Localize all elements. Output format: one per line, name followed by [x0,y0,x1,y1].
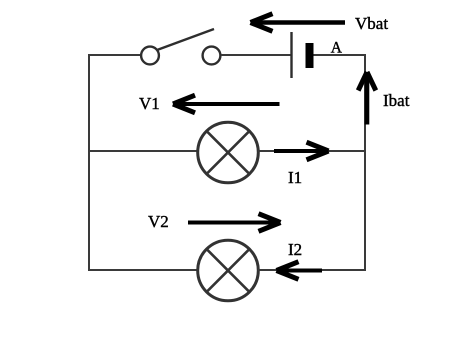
arrow I2 (points left) [277,262,323,280]
svg-text:Vbat: Vbat [355,14,388,33]
battery [292,32,314,78]
wire switch to battery segment [221,54,291,56]
arrow Ibat (points up) [358,72,376,125]
lamp L1 [198,122,259,183]
wire right vertical [364,55,366,271]
wire battery to top-right corner [314,54,367,56]
arrow V1 (points left) [173,95,280,113]
lamp L2 [198,240,259,301]
arrow I1 (points right) [274,142,329,160]
arrow Vbat (points left) [251,14,346,32]
wire bottom rail left segment [88,269,198,271]
svg-text:Ibat: Ibat [383,91,410,110]
svg-text:V1: V1 [139,94,160,113]
wire middle rail left segment [88,150,198,152]
svg-text:I2: I2 [288,240,302,259]
wire left vertical [88,54,90,271]
svg-text:I1: I1 [288,168,302,187]
arrow V2 (points right) [188,214,281,232]
svg-text:A: A [331,40,343,57]
wire bottom rail right segment [258,269,366,271]
switch [141,29,220,64]
wire top rail left segment [88,54,140,56]
svg-text:V2: V2 [148,212,169,231]
wire middle rail right segment [258,150,366,152]
